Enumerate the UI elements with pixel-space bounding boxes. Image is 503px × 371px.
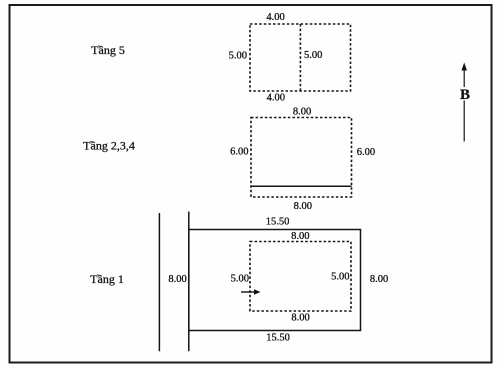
svg-text:8.00: 8.00	[168, 274, 186, 285]
svg-text:4.00: 4.00	[266, 12, 284, 23]
svg-text:8.00: 8.00	[370, 274, 388, 285]
svg-text:B: B	[460, 87, 470, 103]
svg-text:8.00: 8.00	[294, 201, 312, 212]
svg-text:6.00: 6.00	[230, 147, 248, 158]
svg-text:8.00: 8.00	[291, 312, 309, 323]
svg-text:6.00: 6.00	[357, 147, 375, 158]
svg-text:5.00: 5.00	[331, 272, 349, 283]
svg-text:4.00: 4.00	[267, 93, 285, 104]
svg-text:5.00: 5.00	[304, 50, 322, 61]
svg-text:5.00: 5.00	[231, 274, 249, 285]
svg-text:15.50: 15.50	[266, 332, 290, 343]
svg-text:Tầng 1: Tầng 1	[90, 272, 124, 286]
svg-text:15.50: 15.50	[266, 216, 290, 227]
svg-text:Tầng 5: Tầng 5	[91, 43, 125, 57]
svg-text:Tầng 2,3,4: Tầng 2,3,4	[83, 139, 135, 153]
svg-text:5.00: 5.00	[229, 51, 247, 62]
svg-text:8.00: 8.00	[293, 107, 311, 118]
svg-text:8.00: 8.00	[291, 231, 309, 242]
